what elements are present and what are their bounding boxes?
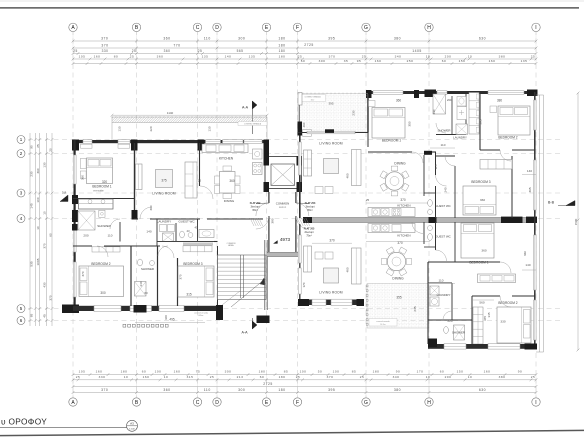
svg-text:25: 25	[198, 179, 202, 183]
grid line C	[197, 30, 199, 397]
svg-text:245: 245	[413, 306, 417, 311]
wall middle band dividers	[119, 222, 121, 242]
svg-text:160: 160	[484, 370, 491, 374]
svg-text:F: F	[296, 25, 299, 31]
svg-text:360: 360	[163, 388, 170, 392]
svg-text:315: 315	[187, 375, 194, 379]
svg-text:1405: 1405	[412, 49, 422, 53]
wall bedrooms top	[73, 245, 92, 247]
elevator cab	[271, 164, 295, 186]
living room coffee table	[156, 170, 173, 188]
svg-text:370: 370	[329, 54, 336, 58]
svg-text:LAUNDRY: LAUNDRY	[437, 293, 451, 297]
nightstand bedroom1 right	[369, 101, 376, 107]
svg-text:BEDROOM 3: BEDROOM 3	[183, 262, 202, 266]
dim 110 corridor right	[430, 147, 455, 149]
svg-text:370: 370	[400, 198, 406, 202]
wardrobe bedroom3	[183, 246, 212, 252]
grid line I	[535, 30, 537, 397]
right dimension line 1500	[577, 93, 579, 350]
border top line	[0, 7, 579, 9]
svg-text:C: C	[196, 400, 200, 406]
bed bedroom1 right lower	[461, 223, 494, 258]
svg-text:60: 60	[49, 233, 53, 237]
living room north wall right unit	[298, 132, 368, 134]
door arcs right upper	[412, 152, 423, 163]
svg-text:490: 490	[302, 122, 306, 127]
grid circle C top	[193, 23, 201, 31]
column top mid2	[425, 90, 437, 98]
svg-text:LIVING ROOM: LIVING ROOM	[152, 192, 176, 196]
bed bedroom2 right unit	[498, 106, 530, 135]
grid circle C bottom	[193, 398, 201, 406]
grid circle H bottom	[425, 398, 433, 406]
svg-text:380: 380	[394, 36, 401, 40]
column bottom stairs-right	[257, 316, 270, 324]
svg-text:25: 25	[531, 54, 535, 58]
kitchen counter left unit	[202, 144, 248, 153]
wall bedroom3 top	[436, 155, 455, 157]
grid circle B top	[132, 23, 140, 31]
living room sofa right unit	[304, 150, 312, 176]
svg-text:300: 300	[238, 388, 245, 392]
svg-text:80: 80	[114, 54, 118, 58]
svg-text:90: 90	[30, 145, 34, 149]
grid row line 4	[28, 218, 560, 220]
svg-text:300: 300	[225, 370, 232, 374]
svg-text:360: 360	[480, 198, 485, 202]
svg-text:200: 200	[83, 234, 88, 238]
grid circle I bottom	[532, 398, 540, 406]
wall bedroom3 west	[454, 166, 456, 218]
grid circle E bottom	[262, 398, 270, 406]
black chunk north wall	[325, 129, 334, 133]
svg-text:75m²: 75m²	[306, 234, 311, 237]
elevator walls black	[264, 156, 270, 166]
svg-text:360: 360	[149, 205, 153, 210]
dining table right lower	[387, 252, 405, 270]
living room tv bench	[136, 164, 143, 190]
grid circle row 2	[17, 150, 25, 158]
svg-text:100: 100	[333, 370, 340, 374]
svg-text:3bed apt: 3bed apt	[251, 205, 260, 208]
washbasin counter left unit	[199, 230, 214, 238]
svg-text:GUEST WC: GUEST WC	[178, 220, 195, 224]
svg-text:375: 375	[161, 179, 167, 183]
grid circle E top	[262, 23, 270, 31]
wall shower south	[436, 134, 466, 136]
grid line F	[297, 30, 299, 397]
canopy hatched strip	[112, 117, 267, 123]
svg-text:FLAT 203: FLAT 203	[305, 202, 316, 205]
left unit west wall	[73, 140, 75, 310]
svg-text:60: 60	[301, 59, 305, 63]
black chunk bedroom1 south	[424, 151, 432, 155]
svg-text:140: 140	[525, 263, 530, 267]
section marker west triangle	[60, 195, 68, 202]
svg-text:H: H	[427, 400, 431, 406]
wall corridor west right unit	[423, 155, 425, 196]
svg-text:340: 340	[393, 375, 400, 379]
svg-text:10: 10	[124, 375, 128, 379]
svg-text:35: 35	[344, 59, 348, 63]
wall box ac unit	[303, 130, 312, 137]
bottom dimension row mid	[73, 379, 536, 381]
east wall right units	[534, 92, 536, 348]
east balcony rail	[539, 95, 541, 352]
columns bottom wall right lower	[298, 299, 309, 306]
wall corridor horizontal	[134, 218, 138, 220]
column C1 north	[198, 140, 205, 151]
veranda hatch right lower	[367, 284, 429, 329]
svg-text:140: 140	[527, 169, 532, 173]
corridor threshold hatch right	[297, 218, 301, 226]
svg-text:16.7m²: 16.7m²	[380, 323, 386, 326]
grid line B	[136, 30, 138, 397]
svg-text:770: 770	[173, 43, 180, 47]
column south-west	[62, 305, 79, 314]
grid row line 3	[28, 192, 560, 194]
svg-text:350: 350	[408, 121, 412, 126]
svg-text:F: F	[296, 400, 299, 406]
svg-text:360: 360	[157, 54, 164, 58]
wall corridor east right unit	[435, 152, 437, 175]
svg-text:320: 320	[102, 180, 108, 184]
column west row3	[72, 195, 78, 204]
svg-text:75: 75	[196, 370, 200, 374]
svg-text:SHOWER: SHOWER	[452, 331, 465, 335]
left unit top wall	[73, 140, 269, 143]
svg-text:1:100: 1:100	[129, 428, 135, 430]
svg-text:D: D	[215, 25, 219, 31]
svg-text:160: 160	[375, 59, 382, 63]
svg-text:180: 180	[278, 388, 285, 392]
left dimension column lines	[29, 133, 31, 326]
svg-text:10: 10	[43, 211, 47, 215]
svg-text:200: 200	[445, 54, 452, 58]
svg-text:330: 330	[500, 320, 505, 324]
svg-text:65: 65	[30, 314, 34, 318]
svg-text:95m²: 95m²	[307, 209, 312, 212]
living room sofa	[185, 162, 197, 198]
svg-text:25: 25	[366, 198, 370, 202]
svg-text:GUEST WC: GUEST WC	[435, 235, 451, 239]
svg-text:360: 360	[163, 36, 170, 40]
svg-text:110: 110	[439, 279, 444, 283]
svg-text:430: 430	[43, 282, 47, 287]
svg-text:G: G	[364, 25, 368, 31]
svg-text:B-B: B-B	[548, 201, 555, 205]
wardrobe wall right unit	[465, 94, 467, 135]
svg-text:10: 10	[468, 375, 472, 379]
svg-text:180: 180	[259, 370, 266, 374]
svg-text:230: 230	[352, 110, 356, 115]
bed bedroom1 right unit	[372, 108, 405, 139]
canopy dimension 1140	[112, 114, 267, 116]
border top faint line	[0, 0, 584, 2]
bed bedroom2	[79, 266, 124, 297]
svg-text:BEDROOM 3: BEDROOM 3	[471, 180, 490, 184]
svg-text:I: I	[535, 25, 536, 31]
top dimension row 3	[73, 53, 536, 55]
svg-text:370: 370	[179, 274, 183, 279]
svg-text:60: 60	[442, 59, 446, 63]
wardrobe strip right unit	[469, 93, 479, 135]
svg-text:330: 330	[102, 49, 109, 53]
flat 205 door arc	[296, 216, 309, 229]
grid circle F top	[293, 23, 301, 31]
balcony note right unit	[300, 95, 326, 102]
svg-text:535: 535	[30, 261, 34, 266]
svg-text:AREA: AREA	[228, 244, 234, 247]
svg-text:43: 43	[186, 229, 190, 233]
svg-text:60: 60	[144, 291, 148, 295]
flat 202 door arc	[256, 203, 269, 216]
wall ensuite top	[73, 198, 134, 200]
svg-text:LIVING ROOM: LIVING ROOM	[319, 291, 343, 295]
svg-text:360: 360	[229, 179, 235, 183]
svg-text:LAUNDRY: LAUNDRY	[157, 220, 171, 224]
svg-text:LAUNDRY: LAUNDRY	[453, 135, 467, 139]
svg-text:365: 365	[483, 316, 487, 321]
corridor walls	[268, 192, 270, 203]
wardrobe bedroom3 right unit	[480, 160, 512, 170]
shower mid room fixtures	[135, 282, 147, 297]
right unit top wall	[368, 91, 536, 94]
svg-text:135: 135	[521, 59, 528, 63]
svg-text:115: 115	[434, 164, 438, 169]
svg-text:130: 130	[118, 126, 122, 131]
grid circle A top	[69, 23, 77, 31]
svg-text:BEDROOM 1: BEDROOM 1	[469, 261, 488, 265]
wall bedroom1 east	[134, 143, 136, 219]
svg-text:10: 10	[164, 375, 168, 379]
svg-text:395: 395	[328, 102, 333, 106]
svg-text:25: 25	[76, 375, 80, 379]
svg-text:180: 180	[279, 54, 286, 58]
grid circle H top	[425, 23, 433, 31]
svg-text:220: 220	[447, 319, 452, 323]
column top NE	[527, 90, 538, 97]
svg-text:KITCHEN: KITCHEN	[397, 234, 410, 238]
svg-text:A-A: A-A	[242, 106, 249, 110]
svg-text:370: 370	[329, 238, 335, 242]
svg-text:3bed apt: 3bed apt	[306, 205, 315, 208]
guest wc right upper	[428, 200, 433, 207]
top dimension row 5	[73, 63, 536, 65]
svg-text:covered veranda: covered veranda	[376, 321, 389, 323]
svg-text:ΧΩΡΟΣ: ΧΩΡΟΣ	[279, 207, 287, 209]
right top wall windows	[373, 91, 403, 95]
svg-text:110: 110	[108, 234, 113, 238]
bottom dimension row 2725	[73, 386, 536, 388]
svg-text:SHOWER: SHOWER	[97, 224, 111, 228]
column west row4	[72, 210, 78, 222]
grid circle G top	[362, 23, 370, 31]
svg-text:145: 145	[30, 203, 34, 208]
svg-text:340: 340	[395, 54, 402, 58]
svg-text:370: 370	[101, 43, 108, 47]
svg-text:150: 150	[459, 59, 466, 63]
svg-text:220: 220	[149, 126, 153, 131]
laundry cabinets left unit	[160, 225, 167, 232]
svg-text:380: 380	[499, 375, 506, 379]
grid circle D bottom	[213, 398, 221, 406]
living room west wall right unit	[299, 136, 301, 219]
svg-text:100: 100	[300, 370, 307, 374]
tv cabinet right unit	[352, 150, 362, 186]
kitchen counter right lower	[368, 224, 415, 233]
grid circle row 6	[17, 317, 25, 325]
bedside table bedroom1	[80, 159, 86, 169]
svg-text:395: 395	[328, 36, 335, 40]
column interior B2	[132, 210, 138, 220]
wall guestwc north	[424, 192, 436, 194]
canopy edge ticks	[111, 116, 113, 118]
column west row4b	[72, 224, 78, 231]
wall bedroom2 south	[480, 149, 500, 151]
svg-text:213: 213	[237, 375, 244, 379]
svg-text:2725: 2725	[304, 43, 314, 47]
svg-text:135: 135	[249, 54, 256, 58]
svg-text:370: 370	[81, 271, 85, 276]
svg-text:25: 25	[210, 375, 214, 379]
svg-text:BEDROOM 2: BEDROOM 2	[91, 262, 110, 266]
svg-text:DINING: DINING	[392, 277, 404, 281]
svg-text:160: 160	[96, 370, 103, 374]
svg-text:630: 630	[479, 36, 486, 40]
svg-text:105: 105	[79, 370, 86, 374]
stairs direction diagonal	[231, 279, 265, 307]
grid circle row 1	[17, 136, 25, 144]
wall bedroom3 west	[177, 258, 179, 306]
svg-text:365: 365	[528, 187, 532, 192]
border bottom line	[0, 430, 584, 435]
columns bottom right lower	[428, 339, 437, 348]
grid line D	[216, 30, 218, 397]
column north-east band	[264, 140, 270, 166]
svg-text:3,8: 3,8	[62, 191, 67, 195]
svg-text:110: 110	[204, 388, 211, 392]
svg-text:1065: 1065	[36, 258, 40, 265]
bed bedroom2 right lower	[497, 307, 531, 343]
svg-text:360: 360	[523, 251, 527, 256]
svg-text:C: C	[196, 25, 200, 31]
bedside bedroom2 right	[490, 106, 497, 113]
svg-text:360: 360	[396, 99, 402, 103]
svg-text:COMMON: COMMON	[276, 202, 290, 206]
column top F2	[366, 90, 372, 98]
svg-text:110: 110	[204, 36, 211, 40]
svg-text:230: 230	[30, 171, 34, 176]
west wall windows	[73, 155, 76, 184]
svg-text:BEDROOM 1: BEDROOM 1	[382, 139, 401, 143]
stairs	[218, 255, 267, 300]
svg-text:95m²: 95m²	[252, 209, 257, 212]
svg-text:370: 370	[302, 282, 306, 287]
corridor south gray band	[267, 253, 298, 257]
bed bedroom3 right unit	[463, 186, 496, 215]
grid circle I top	[532, 23, 540, 31]
svg-text:1140: 1140	[167, 111, 174, 115]
bottom wall right lower	[428, 344, 536, 349]
svg-text:130: 130	[208, 126, 212, 131]
svg-text:370: 370	[101, 388, 108, 392]
grid line E	[266, 30, 268, 397]
svg-text:45: 45	[43, 314, 47, 318]
svg-text:150: 150	[457, 370, 464, 374]
svg-text:DINING: DINING	[224, 199, 235, 203]
svg-text:45: 45	[194, 226, 198, 230]
wardrobe strip right lower	[473, 307, 483, 344]
grid row line 5	[28, 308, 560, 310]
dining chairs left unit	[215, 176, 220, 184]
svg-text:85: 85	[284, 370, 288, 374]
svg-text:130: 130	[43, 162, 47, 167]
svg-text:370: 370	[49, 295, 53, 300]
living coffee table right unit	[324, 159, 339, 174]
bottom dimension row small	[73, 374, 536, 376]
stairs west column	[216, 305, 223, 320]
wall bedroom2 west	[479, 94, 481, 150]
flat 204 door arc	[256, 216, 269, 229]
top dimension row 1	[73, 40, 536, 42]
svg-text:60: 60	[260, 375, 264, 379]
svg-text:360: 360	[36, 168, 40, 173]
left unit bottom wall	[73, 306, 222, 311]
svg-text:160: 160	[489, 59, 496, 63]
svg-text:100: 100	[155, 370, 162, 374]
svg-text:180: 180	[121, 370, 128, 374]
svg-text:360: 360	[81, 175, 85, 180]
svg-text:60: 60	[440, 370, 444, 374]
kitchen stove left unit	[253, 163, 263, 175]
column bottom mid	[134, 305, 147, 313]
bed bedroom1	[87, 158, 113, 184]
svg-text:covered veranda: covered veranda	[194, 311, 209, 314]
shower room right unit	[433, 94, 446, 114]
east wall windows	[534, 100, 537, 130]
laundry right lower	[430, 286, 439, 295]
west balcony hatch right unit	[299, 94, 368, 133]
svg-text:160: 160	[94, 54, 101, 58]
grid line A	[72, 30, 74, 397]
svg-text:380: 380	[499, 54, 506, 58]
column top mid1	[414, 90, 419, 98]
svg-text:A-A: A-A	[242, 331, 249, 335]
dining table left unit	[220, 172, 236, 194]
svg-text:4973: 4973	[280, 237, 291, 242]
svg-text:355: 355	[396, 296, 402, 300]
grid circle G bottom	[362, 398, 370, 406]
wall bedroom1 west right unit	[367, 94, 369, 133]
grid row line 1	[28, 139, 560, 141]
bottom wall windows right lower	[312, 299, 326, 305]
grid circle row 4	[17, 215, 25, 223]
svg-text:330: 330	[99, 375, 106, 379]
svg-text:G: G	[364, 400, 368, 406]
scale stamp	[127, 420, 138, 431]
svg-text:180: 180	[373, 370, 380, 374]
svg-text:240: 240	[432, 109, 436, 114]
grid circle row 3	[17, 189, 25, 197]
living armchairs right unit	[315, 187, 323, 194]
svg-text:160: 160	[174, 370, 181, 374]
bottom dimension row grid	[73, 392, 536, 394]
svg-text:240: 240	[444, 187, 448, 192]
wall bedroom1 south	[368, 151, 412, 153]
svg-text:2725: 2725	[263, 382, 273, 386]
